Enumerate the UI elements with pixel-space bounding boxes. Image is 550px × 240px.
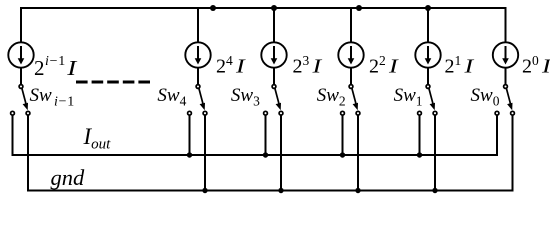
svg-text:2: 2: [216, 56, 226, 78]
svg-text:1: 1: [58, 54, 65, 69]
svg-text:4: 4: [226, 53, 233, 68]
svg-text:2: 2: [379, 53, 386, 68]
svg-text:2: 2: [369, 56, 379, 78]
svg-text:2: 2: [522, 56, 532, 78]
svg-text:i: i: [45, 54, 49, 69]
svg-text:I: I: [541, 56, 550, 78]
svg-text:Sw3: Sw3: [231, 85, 260, 109]
svg-text:I: I: [463, 56, 475, 78]
svg-text:2: 2: [34, 56, 45, 80]
svg-text:1: 1: [67, 94, 74, 109]
svg-text:I: I: [311, 56, 323, 78]
svg-text:Sw4: Sw4: [157, 85, 186, 109]
svg-text:Sw: Sw: [30, 85, 53, 106]
svg-text:3: 3: [303, 53, 310, 68]
svg-text:Sw0: Sw0: [471, 85, 500, 109]
svg-text:Sw2: Sw2: [317, 85, 346, 109]
svg-text:2: 2: [293, 56, 303, 78]
svg-text:gnd: gnd: [51, 165, 86, 190]
svg-text:−: −: [59, 94, 67, 109]
svg-text:Iout: Iout: [83, 124, 112, 153]
svg-text:I: I: [388, 56, 400, 78]
svg-text:i: i: [54, 94, 58, 109]
svg-text:1: 1: [455, 53, 462, 68]
svg-text:−: −: [50, 54, 58, 69]
svg-text:0: 0: [532, 53, 539, 68]
svg-text:I: I: [66, 56, 78, 80]
svg-text:I: I: [235, 56, 247, 78]
svg-text:2: 2: [445, 56, 455, 78]
svg-text:Sw1: Sw1: [394, 85, 423, 109]
